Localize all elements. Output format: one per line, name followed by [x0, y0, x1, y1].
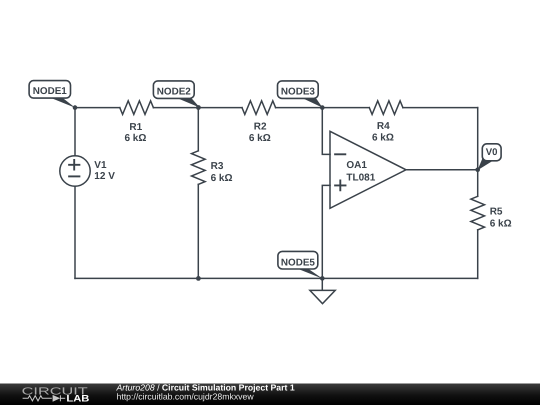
NODE5 flag pointer: [295, 268, 323, 279]
wire: output to R5: [477, 170, 479, 197]
svg-text:R3: R3: [211, 161, 224, 172]
NODE3 flag pointer: [300, 97, 323, 108]
NODE2 label box: [153, 81, 194, 99]
op-amp minus symbol: [335, 153, 345, 155]
resistor R4: [369, 101, 403, 115]
svg-text:NODE3: NODE3: [281, 86, 316, 97]
svg-text:R5: R5: [490, 206, 503, 217]
svg-text:6 kΩ: 6 kΩ: [249, 133, 271, 144]
NODE5 label box: [278, 251, 318, 269]
svg-text:V0: V0: [486, 147, 498, 158]
NODE2 flag pointer: [175, 97, 200, 108]
svg-text:OA1: OA1: [346, 160, 367, 171]
logo resistor-diode mark: [23, 395, 66, 401]
wire: node3 to minus input: [322, 108, 330, 155]
NODE3 label box: [278, 81, 319, 99]
V0 flag pointer: [478, 155, 493, 171]
svg-text:6 kΩ: 6 kΩ: [124, 133, 146, 144]
wire: R2 to R4: [276, 107, 370, 109]
NODE1 label box: [29, 81, 70, 99]
node C junction dot NODE3: [320, 105, 325, 110]
V1 minus sign: [69, 175, 79, 177]
resistor R2: [242, 101, 276, 115]
logo diode triangle: [53, 395, 61, 402]
wire: left rail upper: [74, 108, 76, 156]
V1 plus sign: [69, 160, 79, 170]
wire top: node1 to R1: [75, 107, 120, 109]
svg-text:6 kΩ: 6 kΩ: [211, 173, 233, 184]
wire: node2 rail lower: [197, 184, 199, 278]
ground stem: [321, 278, 323, 290]
ground triangle: [310, 290, 335, 303]
svg-text:NODE2: NODE2: [157, 86, 192, 97]
svg-text:NODE5: NODE5: [281, 258, 316, 269]
node B junction dot NODE2: [196, 105, 201, 110]
svg-text:6 kΩ: 6 kΩ: [490, 218, 512, 229]
node F junction dot ground NODE5: [320, 276, 325, 281]
wire: op-amp output: [406, 169, 478, 171]
svg-text:http://circuitlab.com/cujdr28m: http://circuitlab.com/cujdr28mkxvew: [117, 391, 255, 401]
svg-text:12 V: 12 V: [94, 171, 115, 182]
resistor R5: [471, 196, 485, 230]
svg-text:R2: R2: [254, 122, 267, 133]
wire: R5 to bottom: [477, 230, 479, 279]
svg-text:LAB: LAB: [66, 394, 89, 405]
wire bottom rail: [75, 277, 478, 279]
svg-text:TL081: TL081: [346, 172, 375, 183]
op-amp plus symbol: [335, 181, 345, 191]
wire: right rail feedback down: [477, 108, 479, 170]
wire: node2 rail upper: [197, 108, 199, 151]
svg-text:R4: R4: [377, 121, 390, 132]
node A junction dot NODE1: [73, 105, 78, 110]
wire: R1 to R2: [153, 107, 242, 109]
wire: plus input to ground rail: [322, 185, 330, 278]
NODE1 flag pointer: [46, 96, 76, 108]
svg-text:NODE1: NODE1: [33, 86, 68, 97]
V0 label box: [482, 144, 501, 161]
resistor R3: [192, 151, 206, 185]
footer bar: [0, 384, 540, 405]
wire: R4 to right rail: [403, 107, 478, 109]
svg-text:6 kΩ: 6 kΩ: [372, 132, 394, 143]
node E junction dot R3 bottom: [196, 276, 201, 281]
node D junction dot output V0: [475, 168, 480, 173]
svg-text:V1: V1: [94, 160, 107, 171]
op-amp OA1 triangle: [330, 131, 406, 208]
svg-text:R1: R1: [129, 122, 142, 133]
resistor R1: [120, 101, 154, 115]
wire: left rail lower: [74, 186, 76, 278]
voltage source V1: [60, 156, 90, 186]
